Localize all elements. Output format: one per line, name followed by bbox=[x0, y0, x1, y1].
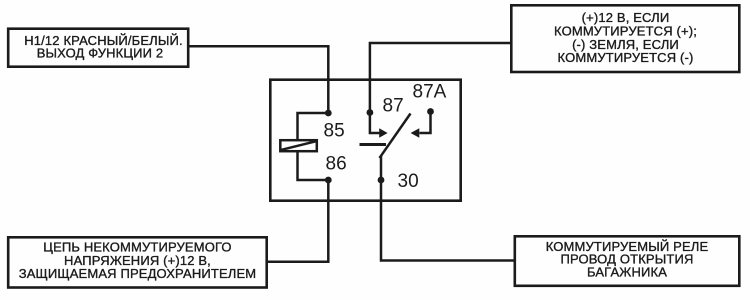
wire: pin 85 to coil bbox=[298, 113, 329, 140]
svg-text:85: 85 bbox=[324, 121, 345, 142]
arrowhead at contact 87A bbox=[411, 128, 420, 137]
wire: blade pivot to pin 30 bbox=[380, 156, 383, 180]
svg-text:ЗАЩИЩАЕМАЯ ПРЕДОХРАНИТЕЛЕМ: ЗАЩИЩАЕМАЯ ПРЕДОХРАНИТЕЛЕМ bbox=[19, 266, 257, 281]
svg-text:86: 86 bbox=[326, 153, 347, 174]
info box: constant fused (+)12V circuit bbox=[8, 237, 267, 287]
wire: coil to pin 86 bbox=[298, 151, 329, 180]
svg-text:30: 30 bbox=[398, 171, 419, 192]
contact bar for 87 bbox=[360, 143, 387, 146]
node: pin 85 bbox=[325, 110, 332, 117]
wire: pin 86 down to bottom-left box bbox=[267, 180, 329, 262]
wire: pin 87A arrow stem bbox=[420, 112, 431, 134]
wire: left box to pin 85 bbox=[188, 46, 328, 113]
relay coil bbox=[280, 140, 317, 151]
node: pin 87 bbox=[367, 109, 374, 116]
svg-text:87: 87 bbox=[383, 96, 404, 117]
wire: pin 30 down to bottom-right box bbox=[381, 180, 515, 261]
node: pin 30 bbox=[378, 177, 385, 184]
switch blade 30-87 bbox=[380, 114, 411, 159]
node: pin 86 bbox=[325, 177, 332, 184]
svg-text:БАГАЖНИКА: БАГАЖНИКА bbox=[587, 265, 667, 280]
info box: switched relay trunk-release wire bbox=[515, 236, 740, 285]
wire: pin 87 riser to right box bbox=[370, 43, 511, 113]
svg-text:ВЫХОД ФУНКЦИИ 2: ВЫХОД ФУНКЦИИ 2 bbox=[37, 46, 164, 61]
svg-text:КОММУТИРУЕТСЯ (-): КОММУТИРУЕТСЯ (-) bbox=[558, 50, 694, 65]
arrowhead at contact 87 bbox=[379, 128, 387, 137]
info box: (+)12V if switched (+) bbox=[511, 5, 739, 72]
relay K1 outline bbox=[270, 80, 460, 201]
wire: pin 87 arrow stem bbox=[370, 113, 380, 134]
node: pin 87A bbox=[427, 108, 434, 115]
svg-text:87A: 87A bbox=[413, 82, 447, 103]
info box: H1/12 RED/WHITE output function 2 bbox=[8, 29, 188, 67]
